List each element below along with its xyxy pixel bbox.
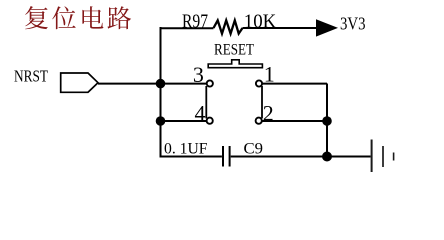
ground symbol bar 2 (middle) [382,146,384,167]
junction dot: NRST rail / left bus [156,79,166,89]
switch pin 4 contact circle [207,118,213,124]
svg-text:4: 4 [195,100,206,125]
wire: resistor right lead to 3V3 power symbol [243,27,317,29]
svg-text:3: 3 [193,62,204,87]
svg-text:R97: R97 [182,11,208,33]
switch pin 2 contact circle [256,118,262,124]
wire: top rail from left bus corner to resistor R97 left lead [160,27,214,29]
wire: left bus to switch pin 4 [161,120,207,122]
ground symbol bar 1 (longest) [371,140,373,173]
switch pin 3 contact circle [207,80,213,86]
switch contact bar pins 3-4 [205,86,207,118]
switch pin 1 contact circle [256,80,262,86]
title text 复位电路 (red) [25,6,131,29]
power symbol 3V3 (filled right-pointing triangle) [316,19,338,36]
wire: switch pin 2 to right bus [262,120,327,122]
wire: right vertical bus [326,84,328,157]
port connector NRST (pentagon flag) [61,73,98,92]
wire: left vertical bus [160,27,162,157]
resistor R97 zigzag body [214,20,243,33]
svg-text:C9: C9 [244,141,264,158]
wire: NRST port to switch pin 3 [98,83,207,85]
ground symbol bar 3 (shortest) [393,153,395,161]
svg-text:1: 1 [264,61,275,86]
switch contact bar pins 1-2 [261,86,263,118]
wire: left bus bottom to capacitor C9 left plate [160,156,222,158]
capacitor C9 right plate [229,146,231,167]
junction dot: right bus / ground rail [322,152,332,162]
capacitor C9 left plate [222,146,224,167]
svg-text:RESET: RESET [214,42,254,59]
svg-text:0. 1UF: 0. 1UF [164,141,208,158]
wire: capacitor right plate to ground [231,156,371,158]
svg-text:10K: 10K [244,11,277,33]
svg-text:NRST: NRST [14,67,48,86]
junction dot: pin-2 rail / right bus [322,116,332,126]
switch S1 actuator bar [208,60,262,68]
svg-text:3V3: 3V3 [340,14,366,34]
junction dot: pin-4 rail / left bus [156,116,166,126]
wire: switch pin 1 to right bus [262,83,327,85]
